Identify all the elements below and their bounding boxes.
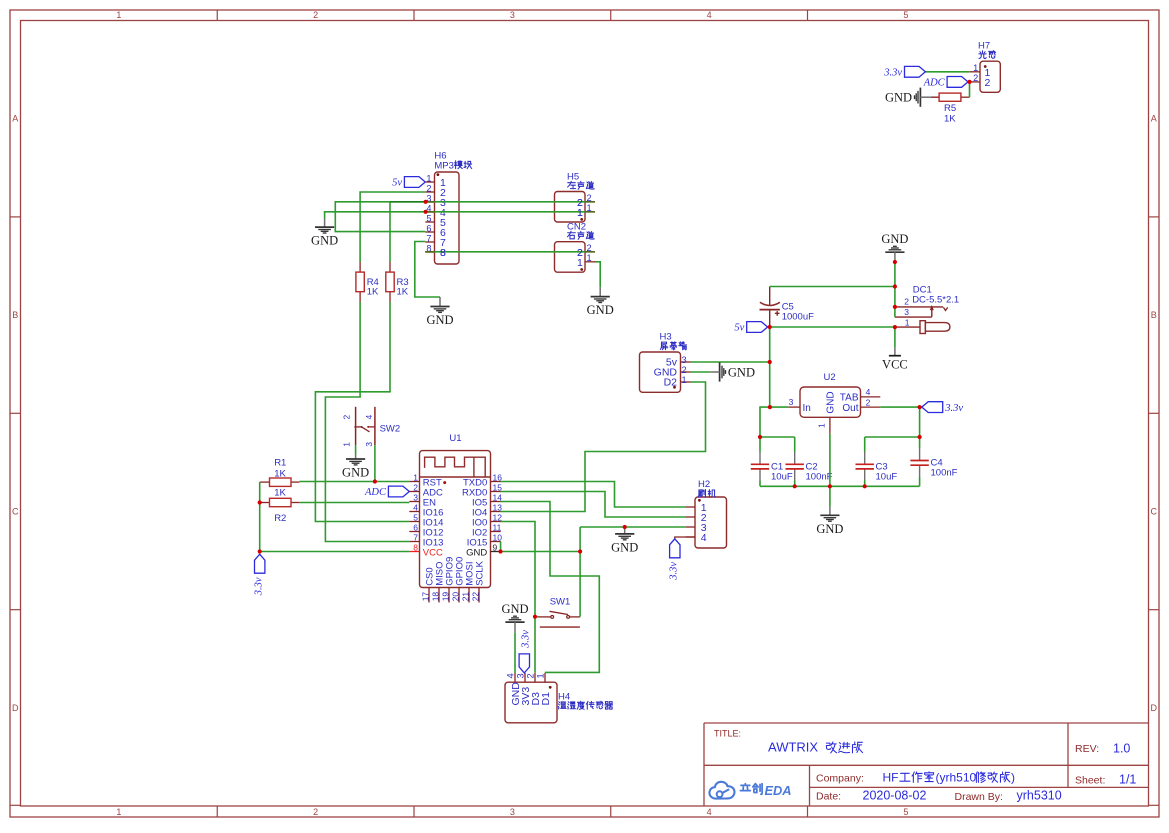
svg-text:1/1: 1/1 — [1119, 773, 1136, 787]
capacitor C1 — [759, 452, 761, 465]
wire H2 pin3 to GND row — [580, 526, 685, 528]
U1 antenna graphic — [425, 457, 486, 477]
svg-text:21: 21 — [460, 592, 470, 602]
net flag ADC at H7 — [947, 77, 968, 88]
svg-text:3: 3 — [682, 355, 687, 365]
svg-text:1K: 1K — [397, 287, 409, 298]
svg-text:22: 22 — [470, 592, 480, 602]
svg-text:5v: 5v — [734, 323, 744, 334]
svg-text:18: 18 — [430, 592, 440, 602]
svg-text:GND: GND — [728, 365, 755, 379]
wire R3 top riser — [389, 202, 391, 262]
wire GND row down to SW1 — [579, 527, 581, 617]
svg-text:EDA: EDA — [765, 783, 792, 798]
wire C5 top rail — [770, 286, 895, 288]
svg-text:In: In — [803, 403, 811, 414]
svg-text:10uF: 10uF — [876, 471, 898, 482]
svg-text:6: 6 — [413, 522, 418, 532]
svg-text:5: 5 — [903, 10, 908, 20]
wire U2 out to 3.3v flag — [880, 406, 922, 408]
svg-text:3.3v: 3.3v — [253, 577, 264, 596]
wire H6 pin2 to R4 top — [360, 192, 425, 262]
svg-text:1: 1 — [413, 472, 418, 482]
wire R3 bottom to U1 IO14 — [315, 302, 409, 522]
svg-text:D1: D1 — [540, 692, 552, 706]
svg-text:GND: GND — [881, 232, 908, 246]
wire SW2 pin1 to ground — [355, 445, 357, 455]
wire In pin connection — [770, 406, 788, 408]
DC jack DC1 — [895, 306, 943, 308]
svg-text:1K: 1K — [367, 287, 379, 298]
wire H7 ADC junction to R5 — [969, 82, 971, 97]
svg-text:D: D — [12, 703, 19, 713]
svg-text:3.3v: 3.3v — [944, 403, 963, 414]
svg-text:1: 1 — [905, 318, 910, 328]
wire cap C1 risers — [759, 437, 761, 486]
wire U2 gnd drop — [829, 434, 831, 507]
wire spine to cap rail — [760, 407, 770, 437]
capacitor C5 polarized — [769, 287, 771, 306]
svg-text:2: 2 — [682, 365, 687, 375]
wire cap C2 risers — [794, 437, 796, 486]
wire DC pin1 to VCC — [894, 327, 896, 348]
svg-text:DC1: DC1 — [913, 284, 932, 295]
ground at H6 pin7 — [439, 297, 441, 307]
svg-text:GND: GND — [885, 91, 912, 105]
svg-text:3: 3 — [413, 492, 418, 502]
svg-text:SCLK: SCLK — [475, 560, 486, 585]
svg-text:GND: GND — [587, 303, 614, 317]
svg-text:C: C — [12, 507, 19, 517]
net flag 5v at H6 — [404, 177, 425, 188]
svg-text:100nF: 100nF — [931, 468, 958, 479]
svg-text:7: 7 — [426, 233, 431, 243]
svg-text:H2: H2 — [698, 479, 710, 490]
wire IO0 to SW1 and H4 D3 — [501, 522, 536, 673]
svg-text:2: 2 — [426, 183, 431, 193]
svg-text:17: 17 — [420, 592, 430, 602]
net flag ADC at U1 — [388, 486, 409, 497]
svg-text:GND: GND — [311, 234, 338, 248]
wire H6 pin4 / H5 pin1 net — [325, 212, 595, 219]
ground at H3 horizontal — [719, 362, 721, 381]
svg-text:ADC: ADC — [923, 78, 946, 89]
svg-text:2: 2 — [313, 807, 318, 817]
wire RST net — [299, 481, 409, 483]
svg-text:yrh5310: yrh5310 — [1017, 789, 1062, 803]
ESP8266 module U1 — [420, 451, 491, 588]
switch SW2 — [355, 407, 357, 445]
wire H6 pin3 / H5 pin2 net — [335, 202, 595, 232]
svg-text:Date:: Date: — [816, 791, 841, 803]
wire R2 to EN — [299, 502, 409, 504]
ground at H4 inverted — [505, 621, 524, 623]
svg-text:3: 3 — [516, 673, 526, 678]
ground at SW2 — [355, 455, 357, 459]
svg-text:1: 1 — [116, 10, 121, 20]
svg-text:ADC: ADC — [364, 487, 387, 498]
svg-text:GND: GND — [426, 313, 453, 327]
svg-text:10uF: 10uF — [771, 471, 793, 482]
net flag 3.3v at U2 out — [922, 402, 943, 413]
svg-text:SW1: SW1 — [550, 596, 571, 607]
ground below U2 caps — [829, 507, 831, 516]
svg-text:H7: H7 — [978, 41, 990, 52]
svg-text:A: A — [12, 114, 18, 124]
svg-text:2: 2 — [866, 397, 871, 407]
wire 5v row to DC jack — [770, 326, 895, 328]
svg-text:19: 19 — [440, 592, 450, 602]
svg-text:9: 9 — [493, 542, 498, 552]
svg-text:DC-5.5*2.1: DC-5.5*2.1 — [912, 295, 959, 306]
resistor R4 — [359, 262, 361, 272]
svg-text:U2: U2 — [824, 372, 836, 383]
wire CN2 pin1 to ground — [595, 262, 600, 288]
svg-text:20: 20 — [450, 592, 460, 602]
wire SW1 gnd segment — [535, 616, 539, 618]
svg-text:H3: H3 — [660, 331, 672, 342]
svg-text:7: 7 — [413, 532, 418, 542]
double wire overlap pin3 row — [390, 201, 426, 203]
ground at H6 pin4 net — [324, 219, 326, 228]
svg-text:R5: R5 — [944, 103, 956, 114]
wire H7 3.3v to pin1 — [925, 71, 969, 73]
VCC power symbol — [894, 348, 896, 356]
net flag 5v at power rail — [747, 322, 768, 333]
svg-text:1: 1 — [587, 253, 592, 263]
svg-text:8: 8 — [440, 247, 446, 259]
svg-text:): ) — [1011, 771, 1015, 785]
wire IO4 to H3 D2 — [501, 382, 706, 512]
title block — [704, 723, 1149, 806]
wire H3 GND pin2 — [691, 371, 711, 373]
wire R4 bottom to U1 IO13 — [325, 302, 409, 542]
svg-text:1K: 1K — [944, 114, 956, 125]
connector H2 flash port — [695, 497, 727, 548]
svg-text:3.3v: 3.3v — [883, 67, 902, 78]
svg-text:1K: 1K — [274, 468, 286, 479]
wire left cap rail — [760, 436, 795, 438]
connector H5 left channel — [555, 192, 586, 223]
EasyEDA logo — [709, 782, 734, 799]
svg-text:2: 2 — [577, 247, 583, 259]
svg-text:6: 6 — [426, 223, 431, 233]
wire TXD0 to H2 pin1 — [501, 482, 686, 508]
svg-text:2: 2 — [413, 482, 418, 492]
connector CN2 right channel — [555, 242, 586, 273]
stub overlaps on wires — [585, 201, 595, 203]
svg-text:REV:: REV: — [1075, 743, 1099, 755]
svg-text:H4: H4 — [558, 692, 570, 703]
ground at H2 pin3 — [624, 527, 626, 534]
svg-text:Company:: Company: — [816, 773, 864, 785]
svg-text:4: 4 — [413, 502, 418, 512]
wire SW2 pin3 to RST — [374, 445, 376, 481]
svg-text:2020-08-02: 2020-08-02 — [863, 789, 927, 803]
svg-text:1: 1 — [536, 673, 546, 678]
svg-text:VCC: VCC — [882, 358, 908, 372]
wire IO5 to H4 D1 — [501, 502, 600, 674]
svg-text:1: 1 — [342, 442, 352, 447]
svg-text:1.0: 1.0 — [1113, 742, 1130, 756]
svg-text:4: 4 — [866, 387, 871, 397]
wire out to right cap rail — [865, 407, 920, 437]
svg-text:1: 1 — [817, 423, 827, 428]
resistor R5 — [931, 96, 939, 98]
connector H3 screen port — [640, 352, 681, 392]
svg-text:4: 4 — [707, 10, 712, 20]
wire cap C4 risers — [919, 437, 921, 486]
ground top right inverted — [885, 251, 904, 253]
svg-text:3: 3 — [789, 397, 794, 407]
svg-text:U1: U1 — [449, 433, 461, 444]
svg-text:4: 4 — [707, 807, 712, 817]
capacitor C3 — [864, 452, 866, 465]
voltage regulator U2 — [800, 387, 861, 417]
wire GND pin9 row — [501, 551, 581, 553]
svg-text:5: 5 — [903, 807, 908, 817]
svg-text:3: 3 — [364, 442, 374, 447]
wire 3.3v rail left — [259, 482, 261, 551]
svg-text:2: 2 — [526, 673, 536, 678]
svg-text:3.3v: 3.3v — [521, 630, 532, 649]
svg-text:GND: GND — [611, 540, 638, 554]
svg-text:Sheet:: Sheet: — [1075, 775, 1105, 787]
svg-text:HF: HF — [883, 771, 899, 785]
wire cap C3 risers — [864, 437, 866, 486]
svg-text:11: 11 — [493, 522, 502, 532]
resistor R1 — [260, 481, 270, 483]
ground at H7 horizontal — [919, 88, 921, 107]
svg-text:GND: GND — [342, 466, 369, 480]
svg-text:2: 2 — [342, 415, 352, 420]
net flag 3.3v at H2 pin4 — [675, 537, 686, 539]
svg-text:CN2: CN2 — [567, 221, 586, 232]
wire IO15 to GND row — [500, 542, 502, 552]
svg-text:2: 2 — [985, 77, 991, 89]
net flag 3.3v at H7 — [905, 66, 926, 77]
svg-text:2: 2 — [904, 297, 909, 307]
svg-text:GND: GND — [826, 391, 837, 413]
svg-text:3: 3 — [510, 807, 515, 817]
wire power spine 5v — [769, 327, 771, 407]
svg-text:AWTRIX: AWTRIX — [768, 740, 818, 755]
wire RXD0 to H2 pin2 — [501, 492, 686, 518]
svg-text:4: 4 — [364, 415, 374, 420]
resistor R2 — [260, 502, 270, 504]
svg-text:Drawn By:: Drawn By: — [955, 791, 1003, 803]
svg-text:VCC: VCC — [423, 548, 443, 559]
wire 3.3v to VCC pin8 — [260, 551, 410, 553]
wire H3 5v pin3 — [691, 361, 771, 363]
svg-text:10: 10 — [493, 532, 503, 542]
svg-text:2: 2 — [313, 10, 318, 20]
junction dots — [424, 200, 428, 204]
svg-text:GND: GND — [466, 548, 487, 559]
svg-text:1: 1 — [682, 375, 687, 385]
svg-text:5: 5 — [413, 512, 418, 522]
svg-text:1: 1 — [973, 63, 978, 73]
resistor R3 — [389, 262, 391, 272]
svg-text:3: 3 — [510, 10, 515, 20]
svg-text:H5: H5 — [567, 171, 579, 182]
svg-text:TAB: TAB — [840, 392, 859, 403]
svg-text:C: C — [1151, 507, 1158, 517]
capacitor C2 — [794, 452, 796, 465]
svg-text:8: 8 — [413, 542, 418, 552]
svg-text:B: B — [1151, 310, 1157, 320]
svg-text:1: 1 — [426, 173, 431, 183]
net flag 3.3v below R1 rail — [255, 554, 265, 573]
svg-text:1000uF: 1000uF — [782, 311, 814, 322]
svg-text:5v: 5v — [392, 178, 402, 189]
svg-text:3.3v: 3.3v — [668, 562, 679, 581]
connector H7 light sensor — [980, 61, 1000, 92]
svg-text:(yrh510: (yrh510 — [936, 771, 977, 785]
connector H6 MP3 module — [435, 172, 460, 264]
svg-text:3: 3 — [904, 307, 909, 317]
svg-text:2: 2 — [973, 73, 978, 83]
wire caps bottom rail — [760, 485, 920, 487]
svg-text:1: 1 — [577, 207, 583, 219]
svg-text:Out: Out — [842, 403, 858, 414]
svg-text:R1: R1 — [274, 458, 286, 469]
net flag 3.3v at H4 3V3 — [519, 654, 529, 673]
wire H6 pin8 to CN2 pin2 — [425, 251, 595, 253]
capacitor C4 — [919, 448, 921, 460]
svg-text:5: 5 — [426, 213, 431, 223]
svg-text:TITLE:: TITLE: — [714, 729, 741, 739]
svg-text:SW2: SW2 — [380, 424, 401, 435]
svg-text:4: 4 — [701, 532, 707, 544]
svg-text:1K: 1K — [274, 487, 286, 498]
svg-text:4: 4 — [506, 673, 516, 678]
svg-text:MP3: MP3 — [434, 160, 454, 171]
wire gnd top drop — [894, 261, 896, 318]
svg-text:GND: GND — [501, 602, 528, 616]
svg-text:B: B — [12, 310, 18, 320]
svg-text:A: A — [1151, 114, 1157, 124]
connector H4 temperature humidity sensor — [505, 682, 557, 723]
ground at CN2 — [599, 287, 601, 296]
svg-text:1: 1 — [116, 807, 121, 817]
wire H6 pin7 to ground — [415, 242, 440, 298]
switch SW1 — [538, 616, 551, 618]
svg-text:100nF: 100nF — [806, 471, 833, 482]
svg-text:D: D — [1151, 703, 1158, 713]
svg-text:R2: R2 — [274, 513, 286, 524]
svg-text:GND: GND — [816, 522, 843, 536]
